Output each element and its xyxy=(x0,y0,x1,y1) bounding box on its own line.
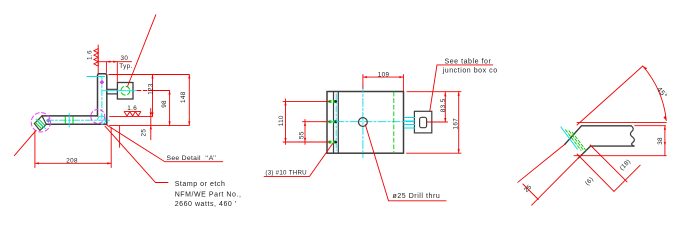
svg-text:110: 110 xyxy=(278,115,285,126)
extension line arm top right xyxy=(110,115,153,117)
mounting holes (green) xyxy=(329,100,338,144)
detail circle at end cap (magenta) xyxy=(31,113,50,132)
svg-text:123: 123 xyxy=(147,83,154,95)
svg-text:junction box co: junction box co xyxy=(442,67,498,74)
45 deg leg xyxy=(577,66,643,125)
end cap hatch (green) xyxy=(36,119,45,128)
extension top for 38 xyxy=(635,125,666,127)
boss between plate and terminal box xyxy=(107,89,118,94)
dimension 30 Typ. xyxy=(98,62,131,82)
svg-text:NFM/WE Part No.,: NFM/WE Part No., xyxy=(175,191,242,198)
junction box xyxy=(414,111,431,133)
weld bevel lines (green dashed) xyxy=(566,130,587,151)
leader to Stamp note xyxy=(105,126,168,182)
bar top edge xyxy=(582,125,632,127)
dimension 98 xyxy=(169,91,171,126)
extension line L2 xyxy=(577,154,614,191)
svg-text:Stamp or etch: Stamp or etch xyxy=(175,181,226,188)
svg-text:167: 167 xyxy=(453,118,460,130)
svg-text:83.5: 83.5 xyxy=(440,98,447,112)
svg-text:38: 38 xyxy=(657,137,664,145)
plate (vertical leg) xyxy=(98,74,107,125)
extension line plate top right xyxy=(109,74,190,76)
svg-text:30: 30 xyxy=(121,55,129,62)
flange centerline (cyan) xyxy=(335,94,337,151)
center marks on arm (green ticks) xyxy=(65,117,73,124)
leader See table xyxy=(430,65,493,111)
extension line box centerline right (98) xyxy=(137,90,147,92)
svg-text:ø25 Drill thru: ø25 Drill thru xyxy=(393,193,441,200)
dimension 148 xyxy=(188,75,190,126)
weld symbol W1 (1.6 fillet, vertical stack) xyxy=(94,45,98,74)
leader (3) #10 THRU xyxy=(264,144,333,177)
arm (horizontal leg) xyxy=(42,116,107,124)
dimension 208 xyxy=(35,128,111,168)
leader ø25 Drill thru xyxy=(365,125,446,201)
detail circle at corner (magenta) xyxy=(91,109,105,123)
angle arc xyxy=(643,66,667,121)
body vertical centerline (cyan) xyxy=(362,85,364,158)
horizontal reference line upper (angle leg) xyxy=(577,121,666,123)
dimension 25 (arm thickness) xyxy=(150,109,152,140)
end cap (welded plate at 45° end) xyxy=(34,116,46,130)
extension line arm bottom right xyxy=(110,124,190,126)
leader to See Detail A xyxy=(105,124,223,162)
svg-text:See table for: See table for xyxy=(445,59,492,66)
leader to terminal box from top xyxy=(128,15,156,87)
dimension 109 xyxy=(363,75,404,91)
end cap centerline (cyan) xyxy=(36,119,46,129)
dimension 38 xyxy=(664,126,666,156)
dimension 55 xyxy=(303,120,330,145)
ø25 hole xyxy=(359,118,368,127)
center mark vertical (cyan) xyxy=(68,114,70,128)
dimension 110 xyxy=(283,99,330,144)
arm centerline (cyan) xyxy=(47,119,111,121)
hidden line (green dashed) xyxy=(393,92,395,153)
break line (squiggle) xyxy=(630,126,634,146)
svg-text:148: 148 xyxy=(180,91,187,103)
box centerline (cyan) xyxy=(103,90,137,92)
svg-text:See Detail ‘‘A’’: See Detail ‘‘A’’ xyxy=(167,155,217,162)
detail A leader (down-left from end cap) xyxy=(14,131,36,156)
weld symbol W2 (1.6, three triangles) xyxy=(124,112,141,116)
dimension 83.5 xyxy=(427,92,448,122)
svg-text:1.6: 1.6 xyxy=(87,50,94,60)
corner bend centerline arc (cyan) xyxy=(98,116,106,124)
point marker diamond on arm centerline xyxy=(46,118,51,123)
dimension 167 xyxy=(407,92,462,154)
svg-text:2660 watts, 460 ’: 2660 watts, 460 ’ xyxy=(175,201,237,208)
cut edge lower (black) xyxy=(578,146,590,158)
angled bar upper edge (red) xyxy=(518,144,565,182)
terminal box xyxy=(117,83,133,100)
body outline xyxy=(327,92,404,154)
svg-text:208: 208 xyxy=(66,157,78,164)
svg-text:(3) #10 THRU: (3) #10 THRU xyxy=(265,169,307,176)
horizontal reference line lower xyxy=(574,155,666,157)
junction box connector xyxy=(420,117,427,127)
flange inner lines xyxy=(334,92,339,154)
angled bar lower edge (red) xyxy=(532,158,579,205)
cut edge upper (black) xyxy=(565,126,582,145)
body horizontal centerline (cyan) xyxy=(322,121,413,123)
dimension 123 xyxy=(152,75,154,117)
plate centerline (cyan) xyxy=(101,78,103,119)
svg-text:25: 25 xyxy=(140,129,147,137)
wires between body and junction box (cyan) xyxy=(404,118,415,129)
hole marker diamond on plate xyxy=(100,80,105,85)
svg-text:1.6: 1.6 xyxy=(127,105,137,112)
svg-text:98: 98 xyxy=(161,100,168,108)
bar bottom edge xyxy=(591,145,635,147)
plate top hole centerline (cyan) xyxy=(87,76,105,78)
svg-text:55: 55 xyxy=(299,131,306,139)
svg-text:Typ.: Typ. xyxy=(119,63,132,70)
dim line M1 xyxy=(614,165,640,191)
angled bar end / dim line 25 xyxy=(523,184,538,200)
extension line L1 xyxy=(590,145,627,182)
weld centerline (cyan) xyxy=(561,127,578,149)
svg-text:109: 109 xyxy=(378,71,390,78)
green dashed circle in box xyxy=(121,86,130,95)
vertical extension at corner xyxy=(119,126,121,147)
